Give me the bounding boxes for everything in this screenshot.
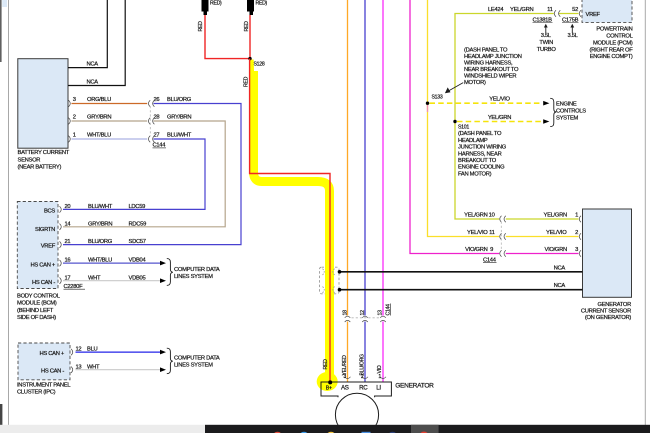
svg-text:LINES SYSTEM: LINES SYSTEM xyxy=(174,363,213,369)
battery current sensor caption xyxy=(18,150,70,170)
svg-text:HS CAN -: HS CAN - xyxy=(41,368,64,374)
svg-text:YEL/GRN: YEL/GRN xyxy=(510,7,533,13)
svg-text:11: 11 xyxy=(547,7,552,13)
svg-text:S133: S133 xyxy=(432,95,443,101)
svg-text:VREF: VREF xyxy=(41,243,56,249)
wire BLU IPC pin 12 xyxy=(76,351,161,353)
svg-text:(DASH PANEL TO: (DASH PANEL TO xyxy=(458,131,502,137)
svg-text:RED: RED xyxy=(244,21,250,32)
wire VIO/GRN vertical+row to sensor pin 3 xyxy=(410,0,579,254)
svg-text:12: 12 xyxy=(360,310,366,316)
splice S133 xyxy=(426,102,429,105)
svg-text:VIO/GRN: VIO/GRN xyxy=(545,247,567,253)
svg-text:2: 2 xyxy=(575,230,578,236)
horizontal scrollbar strip xyxy=(0,425,205,433)
generator terminal breaks xyxy=(345,377,387,379)
svg-text:COMPUTER DATA: COMPUTER DATA xyxy=(174,267,220,273)
svg-text:LDC59: LDC59 xyxy=(129,204,146,210)
svg-text:13: 13 xyxy=(76,364,82,370)
svg-text:WHT/BLU: WHT/BLU xyxy=(88,258,112,264)
svg-text:NCA: NCA xyxy=(87,79,99,85)
svg-text:LINES SYSTEM: LINES SYSTEM xyxy=(174,274,213,280)
svg-text:WHT: WHT xyxy=(87,364,100,370)
svg-text:BLU/ORG: BLU/ORG xyxy=(359,354,365,376)
svg-text:CONTROL: CONTROL xyxy=(606,34,633,40)
svg-text:BLU/WHT: BLU/WHT xyxy=(88,204,113,210)
svg-text:ORG/BLU: ORG/BLU xyxy=(87,97,111,103)
svg-text:COMPUTER DATA: COMPUTER DATA xyxy=(174,356,220,362)
svg-text:HARNESS, NEAR: HARNESS, NEAR xyxy=(458,151,502,157)
wire BLU/WHT C144 pin 27 to BCM pin 20 xyxy=(63,139,205,209)
svg-text:SENSOR: SENSOR xyxy=(18,157,41,163)
IPC pin names xyxy=(40,351,65,375)
svg-text:52: 52 xyxy=(572,7,578,13)
BCM pin 14 label row xyxy=(60,224,62,230)
wire RED main run to generator B+ xyxy=(250,59,330,383)
inline dashed connector at red wire (near generator) xyxy=(320,267,340,294)
svg-text:HS CAN -: HS CAN - xyxy=(32,280,55,286)
taskbar icon 2 xyxy=(299,432,309,433)
svg-text:11: 11 xyxy=(489,230,494,236)
svg-text:AS: AS xyxy=(341,385,349,392)
svg-text:WHT/BLU: WHT/BLU xyxy=(87,133,111,139)
wire YEL/RED vertical to generator pin 3 xyxy=(347,0,349,382)
svg-text:MODULE (BCM): MODULE (BCM) xyxy=(17,301,57,307)
svg-text:VDB04: VDB04 xyxy=(129,258,147,264)
highlighter blob at B+ xyxy=(317,372,338,391)
svg-text:GENERATOR: GENERATOR xyxy=(598,302,632,308)
svg-text:RED: RED xyxy=(323,359,329,370)
svg-text:POWERTRAIN: POWERTRAIN xyxy=(596,27,632,33)
svg-text:WIRING HARNESS,: WIRING HARNESS, xyxy=(464,61,513,67)
svg-text:ENGINE COOLING: ENGINE COOLING xyxy=(458,165,505,171)
svg-text:FAN MOTOR): FAN MOTOR) xyxy=(458,171,492,177)
svg-text:VDB05: VDB05 xyxy=(129,275,146,281)
svg-text:CURRENT SENSOR: CURRENT SENSOR xyxy=(581,309,631,315)
svg-text:CLUSTER (IPC): CLUSTER (IPC) xyxy=(17,389,56,395)
svg-text:LE424: LE424 xyxy=(488,7,504,13)
splice S128 xyxy=(248,57,251,60)
svg-text:VREF: VREF xyxy=(586,12,601,18)
svg-text:WINDSHIELD WIPER: WINDSHIELD WIPER xyxy=(464,74,516,80)
svg-text:BODY CONTROL: BODY CONTROL xyxy=(17,294,61,300)
svg-text:YEL/GRN: YEL/GRN xyxy=(544,213,567,219)
connector C144 breaks on generator verticals xyxy=(345,316,386,322)
taskbar active app highlight xyxy=(411,425,439,433)
taskbar icon 5 xyxy=(387,432,397,433)
taskbar icon 1 xyxy=(272,432,282,433)
wire VIO vertical to generator pin 1 xyxy=(382,0,384,382)
svg-text:BLU/WHT: BLU/WHT xyxy=(167,133,192,139)
fuse F1 xyxy=(202,0,223,15)
svg-text:RC: RC xyxy=(359,385,368,392)
brace computer data (IPC) xyxy=(167,348,173,374)
taskbar xyxy=(205,425,650,433)
arrow up to C175B xyxy=(571,27,573,34)
connector breaks C1381B/C175B on top wire xyxy=(554,10,581,16)
svg-text:S128: S128 xyxy=(254,62,265,68)
svg-text:GRY/BRN: GRY/BRN xyxy=(167,115,191,121)
generator box xyxy=(321,382,391,397)
wire NCA battery 2 xyxy=(68,0,125,86)
svg-text:VIO: VIO xyxy=(377,365,383,373)
note S133 text block xyxy=(464,48,522,87)
svg-text:YEL/RED: YEL/RED xyxy=(342,355,348,376)
svg-text:RED): RED) xyxy=(256,1,268,7)
svg-text:BLU/ORG: BLU/ORG xyxy=(88,239,113,245)
svg-text:(BEHIND LEFT: (BEHIND LEFT xyxy=(17,308,54,314)
svg-text:18: 18 xyxy=(343,310,349,316)
junction dot B+ xyxy=(328,380,332,384)
svg-text:WHT: WHT xyxy=(88,275,101,281)
svg-text:9: 9 xyxy=(490,247,493,253)
svg-text:21: 21 xyxy=(65,239,71,245)
wire WHT/BLU battery pin 1 xyxy=(72,138,148,140)
svg-text:YEL/VIO: YEL/VIO xyxy=(546,230,567,236)
svg-text:(ON GENERATOR): (ON GENERATOR) xyxy=(585,315,632,321)
svg-text:16: 16 xyxy=(65,258,71,264)
svg-text:HS CAN +: HS CAN + xyxy=(31,262,56,268)
body control module box xyxy=(17,202,58,289)
wire WHT BCM pin 17 (HS CAN -) xyxy=(63,280,160,282)
wire WHT IPC pin 13 xyxy=(76,369,161,371)
svg-text:3: 3 xyxy=(575,247,578,253)
svg-text:NCA: NCA xyxy=(554,266,566,272)
page border left xyxy=(8,0,10,425)
note S101 text block xyxy=(458,131,507,177)
svg-text:SYSTEM: SYSTEM xyxy=(556,116,579,122)
svg-text:26: 26 xyxy=(154,97,160,103)
svg-text:LI: LI xyxy=(376,385,381,392)
svg-text:28: 28 xyxy=(154,115,160,121)
svg-text:NCA: NCA xyxy=(554,283,566,289)
svg-text:TURBO: TURBO xyxy=(537,47,557,53)
svg-text:3.5L: 3.5L xyxy=(567,33,578,39)
connector C144 dashed link (sensor rows) xyxy=(500,222,502,251)
BCM pin 21 label row xyxy=(60,241,62,247)
dashed wire YEL/VIO to engine controls xyxy=(430,102,542,104)
arrow IPC HS CAN + xyxy=(160,350,166,355)
svg-text:YEL/GRN: YEL/GRN xyxy=(488,115,511,121)
arrow BCM HS CAN - xyxy=(160,278,166,283)
wire YEL/GRN from PCM to sensor pin 1 xyxy=(455,14,579,220)
svg-text:2: 2 xyxy=(361,374,364,380)
svg-text:RED): RED) xyxy=(210,1,222,7)
connector C144 breaks (sensor rows) xyxy=(500,216,581,257)
wire NCA sensor 2 xyxy=(340,289,583,291)
BCM pin names xyxy=(31,209,56,287)
pale strip top-left xyxy=(2,0,7,7)
svg-text:1: 1 xyxy=(73,133,76,139)
wire WHT/BLU BCM pin 16 (HS CAN +) xyxy=(63,262,160,264)
wire RED from fuse F1 xyxy=(205,15,250,59)
svg-text:1: 1 xyxy=(378,374,381,380)
svg-text:2: 2 xyxy=(73,115,76,121)
taskbar icon 3 xyxy=(326,432,336,433)
taskbar icon 4 xyxy=(362,432,371,433)
svg-text:JUNCTION WIRING: JUNCTION WIRING xyxy=(458,145,507,151)
svg-text:HEADLAMP: HEADLAMP xyxy=(458,138,488,144)
wire BLU/ORG C144 pin 26 to BCM pin 21 xyxy=(63,104,241,245)
svg-text:NEAR BREAKOUT TO: NEAR BREAKOUT TO xyxy=(464,67,519,73)
svg-text:BATTERY CURRENT: BATTERY CURRENT xyxy=(18,150,70,156)
svg-text:BLU: BLU xyxy=(87,347,97,353)
svg-text:ENGINE: ENGINE xyxy=(556,102,577,108)
svg-text:CONTROLS: CONTROLS xyxy=(556,109,586,115)
generator current sensor caption xyxy=(581,302,632,321)
svg-text:B+: B+ xyxy=(326,385,332,391)
instrument panel cluster box xyxy=(18,343,70,380)
wire ORG/BLU battery pin 3 xyxy=(72,103,148,105)
arrow up to C1381B xyxy=(545,27,547,34)
svg-text:YEL/VIO: YEL/VIO xyxy=(467,230,488,236)
svg-text:YEL/GRN: YEL/GRN xyxy=(464,213,487,219)
svg-text:1: 1 xyxy=(575,213,578,219)
wire YEL/VIO vertical+row to sensor pin 2 xyxy=(428,0,579,237)
svg-text:13: 13 xyxy=(378,310,384,316)
svg-text:3.5L: 3.5L xyxy=(541,33,552,39)
connector C144 dashed link line xyxy=(149,106,151,136)
svg-text:27: 27 xyxy=(154,133,160,139)
page border right xyxy=(644,0,646,425)
svg-text:BREAKOUT TO: BREAKOUT TO xyxy=(458,158,497,164)
connector C144 dashed link (generator verticals) xyxy=(352,317,380,319)
svg-text:HEADLAMP JUNCTION: HEADLAMP JUNCTION xyxy=(464,54,522,60)
svg-text:INSTRUMENT PANEL: INSTRUMENT PANEL xyxy=(17,382,71,388)
svg-text:NCA: NCA xyxy=(87,62,99,68)
PCM VREF box xyxy=(582,0,632,22)
BCM caption xyxy=(17,294,61,322)
generator circle xyxy=(335,393,378,433)
svg-text:ENGINE COMPT): ENGINE COMPT) xyxy=(590,54,633,60)
svg-text:BCS: BCS xyxy=(44,209,55,215)
battery current sensor box xyxy=(18,59,68,149)
svg-text:17: 17 xyxy=(65,275,71,281)
PCM caption xyxy=(589,27,633,61)
BCM pin 20 label row xyxy=(60,206,62,212)
wire GRY/BRN C144 pin 28 to BCM pin 14 xyxy=(63,121,225,227)
svg-text:S101: S101 xyxy=(458,125,469,131)
wire RED from fuse F2 xyxy=(249,15,251,59)
IPC caption xyxy=(17,382,71,395)
svg-text:GRY/BRN: GRY/BRN xyxy=(88,222,112,228)
svg-text:(DASH PANEL TO: (DASH PANEL TO xyxy=(464,48,508,54)
svg-text:RDC59: RDC59 xyxy=(129,222,147,228)
svg-text:SIDE OF DASH): SIDE OF DASH) xyxy=(17,315,56,321)
svg-text:GRY/BRN: GRY/BRN xyxy=(87,115,111,121)
svg-text:YEL/VIO: YEL/VIO xyxy=(489,97,510,103)
taskbar icon 6 xyxy=(419,432,429,433)
svg-text:TWIN: TWIN xyxy=(539,40,553,46)
arrow BCM HS CAN + xyxy=(160,261,166,266)
svg-text:RED: RED xyxy=(198,21,204,32)
svg-text:3: 3 xyxy=(73,97,76,103)
splice S101 xyxy=(453,120,456,123)
svg-text:RED: RED xyxy=(244,76,250,87)
brace computer data (BCM) xyxy=(167,259,173,286)
svg-text:SIGRTN: SIGRTN xyxy=(35,227,55,233)
svg-text:VIO/GRN: VIO/GRN xyxy=(465,247,487,253)
YEL/VIO violet tracer segment xyxy=(427,105,429,112)
pointer arrow to S133 xyxy=(448,83,464,92)
svg-text:GENERATOR: GENERATOR xyxy=(395,383,434,390)
generator current sensor box xyxy=(583,209,632,297)
window edge mark bottom-left xyxy=(0,404,2,425)
svg-text:HS CAN +: HS CAN + xyxy=(40,351,65,357)
svg-text:SDC57: SDC57 xyxy=(129,239,146,245)
wire GRY/BRN battery pin 2 xyxy=(72,120,148,122)
dashed breaks inside inline connector xyxy=(323,269,335,293)
svg-text:(NEAR BATTERY): (NEAR BATTERY) xyxy=(18,165,62,171)
wire NCA sensor 1 xyxy=(340,271,583,273)
svg-text:10: 10 xyxy=(489,213,495,219)
dashed wire YEL/GRN to engine controls xyxy=(457,121,541,123)
connector C144 breaks (battery side) xyxy=(148,100,154,142)
highlighter path (yellow) xyxy=(249,60,254,74)
brace engine controls xyxy=(550,98,556,126)
svg-text:3: 3 xyxy=(343,374,346,380)
svg-text:MODULE (PCM): MODULE (PCM) xyxy=(593,40,633,46)
fuse F2 xyxy=(247,0,268,15)
svg-text:20: 20 xyxy=(65,204,71,210)
wire NCA battery 1 xyxy=(68,0,107,68)
arrow engine controls 2 xyxy=(543,119,549,124)
wire BLU/ORG vertical to generator pin 2 xyxy=(364,0,366,382)
svg-text:BLU/ORG: BLU/ORG xyxy=(167,97,192,103)
window edge mark top-left xyxy=(0,0,2,62)
arrow IPC HS CAN - xyxy=(160,367,166,372)
svg-text:MOTOR): MOTOR) xyxy=(464,80,486,86)
svg-text:(RIGHT REAR OF: (RIGHT REAR OF xyxy=(589,47,633,53)
arrow engine controls 1 xyxy=(543,101,549,106)
svg-text:12: 12 xyxy=(76,347,82,353)
